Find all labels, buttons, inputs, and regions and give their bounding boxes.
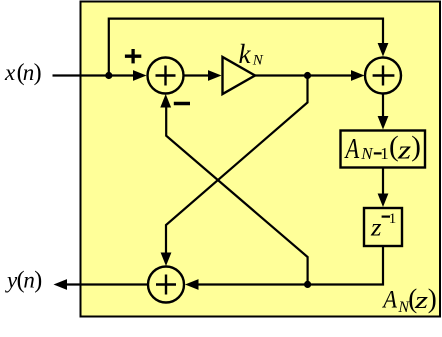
svg-text:z: z [414, 287, 428, 313]
wire x(n) input [53, 74, 136, 76]
wire cross B up-left [166, 107, 307, 285]
wire bottom adder to y(n) [67, 283, 148, 285]
svg-text:): ) [411, 131, 421, 163]
yellow system box [81, 2, 441, 317]
svg-text:N: N [360, 144, 374, 163]
svg-text:z: z [370, 213, 382, 241]
adder U1 left sum circle [148, 58, 184, 94]
svg-text:N: N [252, 52, 264, 68]
arrowhead into AN-1 box [378, 116, 389, 130]
wire z box to bottom adder [198, 246, 383, 285]
wire adder to triangle [184, 74, 210, 76]
label x(n) [4, 60, 42, 86]
node bottom junction [304, 281, 311, 288]
svg-text:1: 1 [389, 211, 397, 227]
arrowhead into triangle [208, 70, 222, 81]
block z^-1 delay [364, 208, 402, 246]
arrowhead into bottom adder top [161, 253, 172, 267]
svg-text:): ) [428, 284, 437, 314]
block AN-1(z) [341, 131, 426, 168]
wire feedforward top [109, 19, 383, 76]
arrowhead into left adder [133, 70, 147, 81]
node k-output junction [304, 72, 311, 79]
amplifier kN triangle [223, 57, 256, 94]
label AN-1(z) [344, 131, 421, 165]
label z^-1 [370, 211, 396, 241]
arrowhead output y(n) [54, 279, 68, 290]
svg-text:n: n [23, 60, 35, 85]
label minus sign [174, 102, 190, 106]
label y(n) [5, 268, 42, 294]
svg-text:A: A [381, 286, 397, 313]
svg-text:z: z [397, 135, 412, 164]
wire triangle to right adder [255, 74, 352, 76]
label AN(z) [381, 284, 436, 316]
svg-text:1: 1 [380, 144, 389, 163]
svg-text:n: n [23, 268, 35, 293]
svg-text:k: k [239, 39, 252, 69]
arrowhead into right adder top [378, 43, 389, 57]
arrowhead into right adder left [351, 70, 365, 81]
adder U3 bottom sum circle [148, 267, 184, 303]
svg-text:): ) [34, 268, 42, 294]
wire AN-1 box to z box [382, 168, 384, 195]
svg-text:): ) [34, 60, 42, 86]
arrowhead into left adder bottom [160, 94, 171, 108]
label plus sign [125, 55, 141, 58]
arrowhead into z box [378, 194, 389, 208]
wire right adder to AN-1 box [382, 94, 384, 118]
adder U2 right sum circle [365, 58, 401, 94]
svg-text:A: A [344, 134, 360, 165]
node input junction [105, 72, 112, 79]
wire cross A down-left [166, 76, 308, 254]
arrowhead into bottom adder right [185, 279, 199, 290]
svg-text:x: x [4, 60, 16, 85]
